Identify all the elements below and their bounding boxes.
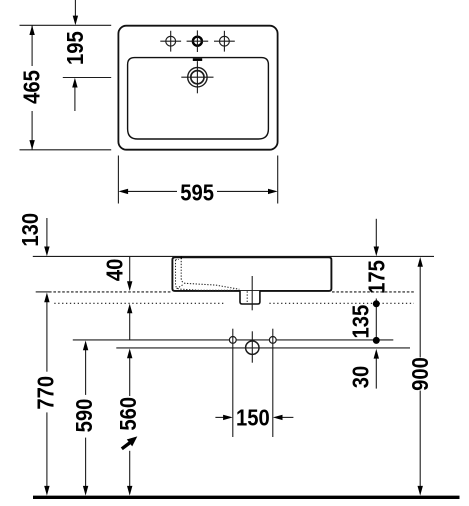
svg-text:30: 30 — [347, 366, 374, 389]
dim 40 upper arrow (from rim line down to countertop) — [127, 256, 132, 291]
dimension 150 with outside arrows — [215, 415, 293, 420]
countertop line (770 level, dashed) right — [332, 291, 414, 293]
middle tap hole (drilled, bold ring) — [187, 30, 209, 52]
dimension 590 line — [83, 341, 88, 496]
dim 150 extension lines — [232, 329, 234, 437]
drain vertical centerline — [251, 276, 253, 310]
drain circle front view — [246, 331, 259, 362]
dimension 560 line — [127, 349, 132, 496]
floor line — [33, 496, 460, 499]
svg-text:770: 770 — [32, 376, 59, 410]
dim 40 lower arrow (pointing up to dotted line) — [127, 304, 132, 340]
svg-text:195: 195 — [62, 31, 89, 65]
washbasin front profile outline — [172, 257, 331, 291]
ceramic bottom line (175 level, dotted) right — [269, 302, 414, 304]
drain / overflow hole with crosshair — [181, 61, 213, 93]
svg-text:595: 595 — [180, 179, 214, 206]
extension line top (465 top / basin front edge) — [20, 24, 112, 26]
dim 175 arrow line (down to rim) — [374, 219, 379, 304]
left fixing hole — [229, 337, 236, 344]
svg-text:150: 150 — [236, 404, 270, 431]
svg-text:900: 900 — [407, 357, 434, 391]
right tap hole (marked) — [214, 31, 235, 52]
washbasin top view inner basin outline — [128, 58, 269, 139]
countertop line (770 level, dashed) left — [36, 291, 172, 293]
svg-text:130: 130 — [17, 213, 44, 247]
overflow slot bar — [193, 58, 202, 61]
dimension 770 line — [44, 293, 49, 496]
extension line bottom (465 bottom) — [20, 149, 112, 151]
svg-text:560: 560 — [115, 397, 142, 431]
svg-text:40: 40 — [101, 259, 128, 282]
ceramic bottom line (175 level, dotted) left — [54, 302, 224, 304]
dim 195 bottom line — [63, 77, 111, 79]
rim notch tick at inner wall — [180, 256, 182, 259]
dim 195 bottom arrow — [72, 78, 77, 111]
dim 135 segment between dots — [375, 304, 377, 341]
diagonal slope arrow — [122, 436, 138, 448]
dim 195 top arrow (cropped at top edge) — [73, 0, 78, 25]
dotted line inside drain box — [246, 291, 248, 303]
dimension 465 line with arrows — [29, 25, 34, 150]
dim 595 extension lines — [117, 156, 119, 204]
svg-text:135: 135 — [347, 305, 374, 339]
washbasin top view outer outline — [118, 26, 277, 150]
dot marker at 135/30 junction — [373, 337, 380, 344]
svg-text:590: 590 — [71, 399, 98, 433]
drain centre line (560 level) — [116, 347, 410, 349]
dimension 900 line — [418, 257, 423, 496]
dot marker at 175/135 junction — [373, 300, 380, 307]
drain outlet box under basin — [240, 291, 260, 304]
dim 130 arrow line (above rim) — [44, 218, 49, 256]
basin ceramic section (dotted contour of wall and floor) — [176, 258, 240, 290]
svg-text:465: 465 — [18, 70, 45, 104]
svg-text:175: 175 — [363, 260, 390, 294]
left tap hole (marked) — [160, 31, 181, 52]
dim 30 lower arrow — [374, 349, 379, 389]
rim level line (900 top reference) — [33, 255, 434, 257]
dimension 595 line with arrows — [118, 189, 277, 194]
mounting holes line (590 level) — [73, 339, 394, 341]
right fixing hole — [269, 337, 276, 344]
